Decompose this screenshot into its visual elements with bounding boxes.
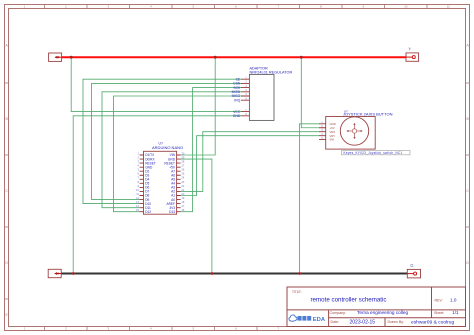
Keyes part annotation box bbox=[342, 151, 411, 155]
svg-text:1.0: 1.0 bbox=[450, 298, 457, 303]
joystick circle bbox=[340, 117, 368, 145]
svg-text:Terna engineering colleg: Terna engineering colleg bbox=[357, 310, 408, 315]
junction on +V rail at VCC link bbox=[70, 56, 73, 59]
Arduino right pin stubs bbox=[177, 155, 181, 212]
svg-text:NRF24L01 REGULATOR: NRF24L01 REGULATOR bbox=[250, 70, 293, 74]
svg-text:REV:: REV: bbox=[435, 298, 443, 302]
svg-text:JOYSTICK 2AXIS BUTTON: JOYSTICK 2AXIS BUTTON bbox=[343, 112, 393, 117]
svg-text:Y: Y bbox=[408, 47, 411, 52]
connector P1 top-left pin header bbox=[49, 53, 62, 61]
title block frame bbox=[287, 287, 466, 327]
NRF pin stubs bbox=[241, 79, 249, 116]
svg-text:IRQ: IRQ bbox=[234, 98, 240, 102]
svg-text:TITLE:: TITLE: bbox=[292, 290, 302, 294]
connector P2 top-right pin header bbox=[406, 53, 419, 61]
joystick 2-axis button U? bbox=[319, 109, 393, 149]
junction on +V rail at VIN link bbox=[214, 56, 217, 59]
joystick crosshair bbox=[348, 125, 360, 137]
wire VCC: NRF24 VCC up to +V rail bbox=[71, 57, 241, 111]
Arduino right pin numbers bbox=[181, 151, 184, 212]
wire MOSI: NRF24 MOSI to Arduino D11 bbox=[102, 92, 241, 208]
EasyEDA logo bbox=[289, 315, 326, 323]
junction on GND rail at joystick GND bbox=[298, 272, 301, 275]
border row ticks right bbox=[466, 83, 470, 227]
svg-text:11: 11 bbox=[447, 5, 450, 9]
border row ticks left bbox=[5, 83, 9, 299]
border column ticks bottom bbox=[45, 327, 258, 331]
Arduino right pin names bbox=[164, 153, 176, 214]
connector P4 bottom-right pin header bbox=[407, 269, 420, 278]
svg-text:Date:: Date: bbox=[331, 320, 340, 324]
svg-text:2023-02-15: 2023-02-15 bbox=[350, 319, 376, 325]
svg-text:Sheet:: Sheet: bbox=[434, 311, 444, 315]
svg-text:SW: SW bbox=[330, 138, 335, 142]
svg-text:D13: D13 bbox=[169, 210, 175, 214]
svg-text:EDA: EDA bbox=[313, 317, 326, 323]
svg-text:eshwar09 & coolrug: eshwar09 & coolrug bbox=[411, 319, 455, 325]
Arduino left pin numbers bbox=[136, 151, 139, 212]
Arduino left pin stubs bbox=[140, 155, 144, 212]
joystick pin names bbox=[330, 122, 336, 142]
border column ticks top bbox=[45, 5, 428, 9]
wire VRY: joystick VRY to Arduino A1 bbox=[181, 136, 319, 196]
svg-text:ARDUINO NANO: ARDUINO NANO bbox=[152, 145, 183, 150]
border column numbers top bbox=[24, 5, 451, 9]
wire SCK: NRF24 SCK to Arduino D13 bbox=[181, 88, 241, 212]
svg-text:1/1: 1/1 bbox=[452, 310, 459, 315]
wire GND3: joystick GND down to GND rail bbox=[300, 124, 319, 274]
svg-text:10: 10 bbox=[404, 5, 408, 9]
svg-text:Company:: Company: bbox=[330, 311, 346, 315]
svg-text:Drawn By:: Drawn By: bbox=[388, 320, 405, 324]
NRF pin numbers bbox=[245, 76, 247, 116]
border row letters right bbox=[466, 44, 469, 266]
svg-text:GND: GND bbox=[233, 114, 241, 118]
border row letters left bbox=[5, 44, 8, 318]
wire VIN: Arduino VIN up to +V rail bbox=[181, 57, 216, 155]
NRF24L01 adapter module U? bbox=[232, 67, 293, 121]
Arduino left pin names bbox=[145, 153, 156, 214]
net G ground bus (black) bbox=[61, 273, 407, 275]
junction on GND rail at NRF GND bbox=[72, 272, 75, 275]
wire VRX: joystick VRX to Arduino A2 bbox=[181, 132, 319, 192]
wire GND: NRF24 GND down to GND rail bbox=[73, 116, 241, 274]
net Y power bus (red) bbox=[62, 56, 406, 58]
junction on +V rail at joystick 5V link bbox=[300, 56, 303, 59]
svg-text:G: G bbox=[410, 263, 413, 268]
svg-text:remote controller schematic: remote controller schematic bbox=[311, 297, 387, 304]
junction on GND rail at Arduino GND bbox=[211, 272, 214, 275]
svg-text:D12: D12 bbox=[145, 210, 151, 214]
wire CE: NRF24 CE to Arduino D10 bbox=[83, 79, 241, 203]
wire CSN: NRF24 CSN to Arduino D9 bbox=[92, 83, 242, 199]
border column numbers bottom bbox=[24, 327, 280, 331]
wire +5V: joystick +5V up to +V rail bbox=[301, 57, 319, 128]
wire MISO: NRF24 MISO to Arduino D12 bbox=[114, 96, 242, 212]
wire GND2: Arduino GND down to GND rail bbox=[181, 159, 212, 273]
joystick pin numbers bbox=[321, 122, 323, 140]
joystick pin stubs bbox=[319, 124, 326, 140]
NRF pin names bbox=[232, 77, 241, 118]
connector P3 bottom-left pin header bbox=[48, 269, 61, 277]
svg-text:Keyes_KY023_Joystick_switch_NC: Keyes_KY023_Joystick_switch_NC1 bbox=[344, 151, 403, 155]
Arduino Nano U? bbox=[136, 142, 185, 215]
